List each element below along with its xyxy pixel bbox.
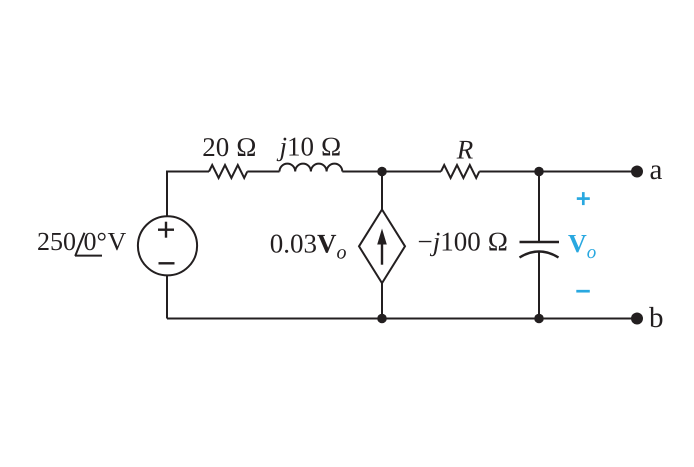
wire R to terminal a — [479, 171, 637, 173]
svg-text:V: V — [108, 227, 127, 256]
bottom wire — [167, 318, 637, 320]
svg-text:R: R — [456, 135, 474, 165]
terminal a dot — [631, 166, 643, 178]
wire between 20ohm and inductor — [247, 171, 279, 173]
wire inductor to R — [342, 171, 441, 173]
node junction dot (top of dependent source) — [377, 167, 387, 177]
voltage source V1 250 angle 0 — [138, 216, 197, 275]
junction dot bottom of dependent source — [377, 314, 387, 324]
svg-text:20 Ω: 20 Ω — [202, 132, 257, 162]
label minus (Vo polarity) — [576, 290, 590, 293]
wire node down to capacitor — [538, 172, 540, 243]
wire capacitor to bottom wire — [538, 252, 540, 319]
terminal b dot — [631, 313, 643, 325]
label plus (Vo polarity) — [577, 192, 590, 205]
wire dependent source to bottom wire — [381, 283, 383, 318]
wire node down to dependent source — [381, 172, 383, 210]
svg-text:j10 Ω: j10 Ω — [276, 132, 341, 162]
dependent current source U1 0.03Vo (diamond) — [359, 210, 405, 284]
capacitor C1 -j100ohm — [520, 242, 560, 258]
svg-text:Vo: Vo — [568, 229, 596, 263]
wire source bottom to bottom wire — [166, 275, 168, 318]
label 250 angle 0 V — [37, 227, 127, 256]
node junction dot (top of capacitor) — [534, 167, 544, 177]
resistor R zigzag — [441, 165, 479, 178]
svg-text:0.03Vo: 0.03Vo — [270, 229, 347, 264]
svg-text:−j100 Ω: −j100 Ω — [418, 227, 509, 257]
wire top-left (source top to 20ohm resistor) — [167, 172, 209, 217]
inductor L1 j10ohm — [280, 164, 343, 172]
svg-text:b: b — [649, 302, 664, 334]
svg-text:0°: 0° — [84, 227, 107, 256]
svg-text:250: 250 — [37, 227, 76, 256]
svg-text:a: a — [650, 154, 663, 186]
resistor R1 20ohm zigzag — [209, 165, 247, 178]
junction dot bottom of capacitor — [534, 314, 544, 324]
